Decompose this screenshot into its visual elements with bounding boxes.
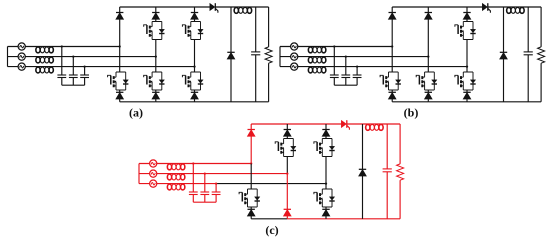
wire: leg 1 node-to-fet (b) xyxy=(391,47,393,73)
node: phase b junction (b) xyxy=(427,55,429,57)
diode D1t (b) xyxy=(389,13,396,20)
thyristor T (a) xyxy=(210,3,218,13)
wire: leg 2 diode-to-rail (a) xyxy=(155,99,157,102)
wire: freewheel branch (a) xyxy=(230,7,232,102)
diode D3b (a) xyxy=(191,92,198,99)
wire: leg 3 top stub (b) xyxy=(466,7,468,13)
diode D3b (c) xyxy=(322,209,329,216)
node: cap junction b (c) xyxy=(204,172,206,174)
wire: phase b line (b) xyxy=(280,56,428,58)
diode D2t (b) xyxy=(425,13,432,20)
wire: load branch (b) xyxy=(540,7,542,102)
diode D2b (c) xyxy=(284,209,291,216)
resistor Rload (a) xyxy=(265,47,272,63)
mosfet S3b (c) xyxy=(314,189,335,207)
resistor Rload (c) xyxy=(397,164,404,180)
wire: leg 2 diode-to-rail (b) xyxy=(427,99,429,102)
diode D2t (a) xyxy=(152,13,159,20)
node: cap junction a (a) xyxy=(61,45,63,47)
wire: leg 2 diode-to-fet (c) xyxy=(286,136,288,139)
wire: leg 1 diode-to-rail (c) xyxy=(250,216,252,219)
node: phase c junction (a) xyxy=(193,65,195,67)
wire: leg 1 top stub (c) xyxy=(250,124,252,130)
diode D3t (c) xyxy=(322,130,329,137)
mosfet S3b (a) xyxy=(182,72,203,90)
ac source Vc (c) xyxy=(150,180,157,187)
wire: leg 3 diode-to-rail (a) xyxy=(194,99,196,102)
inductor Lb (a) xyxy=(36,57,54,63)
wire: leg 2 diode-to-fet (a) xyxy=(155,19,157,22)
wire: filter cap star bar (c) xyxy=(193,201,216,203)
node: phase c junction (c) xyxy=(325,182,327,184)
wire: filter cap branch c (a) xyxy=(84,67,86,86)
mosfet S3b (b) xyxy=(455,72,476,90)
wire: negative dc rail right (b) xyxy=(428,101,541,103)
capacitor Cfb (a) xyxy=(69,75,78,78)
wire: output cap branch (b) xyxy=(527,7,529,102)
resistor Rload (b) xyxy=(538,47,545,63)
wire: leg 2 fet-to-node (c) xyxy=(286,157,288,174)
wire: leg 3 fet-to-diode (a) xyxy=(194,90,196,92)
wire: leg 3 node-to-fet (b) xyxy=(466,67,468,72)
wire: leg 1 fet-to-diode (a) xyxy=(119,90,121,92)
wire: leg 3 fet-to-node (b) xyxy=(466,40,468,67)
mosfet S1b (c) xyxy=(239,189,260,207)
svg-text:(b): (b) xyxy=(404,106,419,120)
wire: leg 1 diode-to-rail (a) xyxy=(119,99,121,102)
wire: leg 2 fet-to-node (a) xyxy=(155,40,157,57)
ac source Vc (b) xyxy=(291,63,298,70)
wire: filter cap branch b (c) xyxy=(204,174,206,203)
capacitor Cfc (b) xyxy=(353,75,362,78)
node: phase a junction (a) xyxy=(119,45,121,47)
wire: leg 2 top stub (c) xyxy=(286,124,288,130)
inductor Ldc (b) xyxy=(507,7,524,13)
wire: left bus of (a) xyxy=(7,47,9,67)
wire: negative dc rail right (c) xyxy=(287,218,400,220)
capacitor Cfa (c) xyxy=(189,192,198,195)
capacitor Cfa (a) xyxy=(57,75,66,78)
diode Df freewheel (a) xyxy=(227,52,234,59)
node: cap junction c (b) xyxy=(356,65,358,67)
diode D2b (b) xyxy=(425,92,432,99)
ac source Va (a) xyxy=(18,43,25,50)
inductor Lc (c) xyxy=(167,184,185,190)
ac source Vb (b) xyxy=(291,53,298,60)
ac source Vc (a) xyxy=(18,63,25,70)
diode D2t (c) xyxy=(284,130,291,137)
wire: leg 3 fet-to-node (a) xyxy=(194,40,196,67)
wire: leg 3 diode-to-fet (b) xyxy=(466,19,468,22)
wire: negative dc rail left (a) xyxy=(120,101,156,103)
circuit (c) highlighted rectifier xyxy=(139,120,404,219)
wire: leg 2 node-to-fet (b) xyxy=(427,57,429,72)
capacitor Co (b) xyxy=(524,52,533,55)
diode Df freewheel (b) xyxy=(500,52,507,59)
wire: leg 1 node-to-fet (c) xyxy=(250,164,252,190)
mosfet S2b (a) xyxy=(144,72,165,90)
inductor Ldc (c) xyxy=(366,124,384,130)
node: cap junction a (b) xyxy=(333,45,335,47)
wire: negative dc rail left (c) xyxy=(251,218,287,220)
diode D3t (b) xyxy=(463,13,470,20)
mosfet S2t (a) xyxy=(144,22,165,40)
wire: filter cap branch b (a) xyxy=(72,57,74,86)
wire: leg 3 top stub (c) xyxy=(325,124,327,130)
wire: leg 3 diode-to-fet (a) xyxy=(194,19,196,22)
ac source Vb (a) xyxy=(18,53,25,60)
wire: leg 3 node-to-fet (a) xyxy=(194,67,196,72)
node: cap junction b (a) xyxy=(72,55,74,57)
inductor Lb (c) xyxy=(167,174,185,180)
wire: leg 3 fet-to-diode (b) xyxy=(466,90,468,92)
wire: phase c line (b) xyxy=(280,66,467,68)
wire: leg 3 fet-to-node (c) xyxy=(325,157,327,184)
svg-text:(a): (a) xyxy=(129,106,143,120)
wire: load branch (c) xyxy=(399,124,401,219)
mosfet S2t (c) xyxy=(275,139,296,157)
capacitor Co (c) xyxy=(383,169,392,172)
wire: freewheel branch (c) xyxy=(362,124,364,219)
wire: leg 2 to rail (c) xyxy=(286,216,288,219)
wire: phase b line (a) xyxy=(8,56,156,58)
node: phase c junction (b) xyxy=(466,65,468,67)
diode D2b (a) xyxy=(152,92,159,99)
wire: positive dc rail (c) xyxy=(251,123,400,125)
wire: leg 1 top drop (c) xyxy=(250,136,252,164)
diode D3t (a) xyxy=(191,13,198,20)
inductor Lc (a) xyxy=(36,67,54,73)
wire: leg 2 node-to-fet (a) xyxy=(155,57,157,72)
wire: filter cap star bar (b) xyxy=(334,84,357,86)
wire: leg 1 top stub (b) xyxy=(391,7,393,13)
capacitor Cfb (b) xyxy=(341,75,350,78)
wire: filter cap branch a (b) xyxy=(333,47,335,86)
ac source Vb (c) xyxy=(150,170,157,177)
mosfet S3t (a) xyxy=(182,22,203,40)
capacitor Cfc (c) xyxy=(212,192,221,195)
wire: output cap branch (a) xyxy=(255,7,257,102)
thyristor T (c) xyxy=(341,120,349,130)
wire: filter cap branch c (b) xyxy=(356,67,358,86)
wire: negative dc rail left (b) xyxy=(392,101,428,103)
inductor La (a) xyxy=(36,47,54,53)
wire: phase a line (c) xyxy=(139,163,251,165)
node: phase a junction (c) xyxy=(250,162,252,164)
wire: leg 3 fet-to-diode (c) xyxy=(325,207,327,209)
wire: leg 3 top stub (a) xyxy=(194,7,196,13)
wire: leg 2 fet-to-diode (a) xyxy=(155,90,157,92)
wire: filter cap branch c (c) xyxy=(215,184,217,203)
node: cap junction c (c) xyxy=(215,182,217,184)
inductor Lb (b) xyxy=(308,57,326,63)
wire: leg 1 fet-to-diode (b) xyxy=(391,90,393,92)
wire: leg 3 diode-to-rail (c) xyxy=(325,216,327,219)
inductor La (b) xyxy=(308,47,326,53)
capacitor Cfc (a) xyxy=(80,75,89,78)
wire: leg 3 node-to-fet (c) xyxy=(325,184,327,189)
wire: leg 1 top drop (b) xyxy=(391,19,393,47)
wire: negative dc rail right (a) xyxy=(156,101,269,103)
diode D1b (c) xyxy=(248,209,255,216)
wire: output cap branch (c) xyxy=(386,124,388,219)
wire: filter cap star bar (a) xyxy=(62,84,85,86)
circuit (a) three-phase buck rectifier xyxy=(8,3,273,102)
wire: leg 1 diode-to-rail (b) xyxy=(391,99,393,102)
wire: leg 2 fet-to-diode (b) xyxy=(427,90,429,92)
wire: positive dc rail (b) xyxy=(392,6,541,8)
wire: filter cap branch a (a) xyxy=(61,47,63,86)
inductor Lc (b) xyxy=(308,67,326,73)
mosfet S3t (c) xyxy=(314,139,335,157)
wire: filter cap branch b (b) xyxy=(345,57,347,86)
diode Df freewheel (c) xyxy=(359,169,366,176)
wire: filter cap branch a (c) xyxy=(192,164,194,203)
wire: leg 2 top drop (b) xyxy=(427,19,429,57)
diode D1t (a) xyxy=(116,13,123,20)
diode D3b (b) xyxy=(463,92,470,99)
wire: freewheel branch (b) xyxy=(503,7,505,102)
circuit (b) buck rectifier variant xyxy=(280,3,545,102)
inductor Ldc (a) xyxy=(234,7,252,13)
mosfet S1b (b) xyxy=(380,72,401,90)
node: cap junction a (c) xyxy=(192,162,194,164)
wire: leg 3 diode-to-rail (b) xyxy=(466,99,468,102)
mosfet S3t (b) xyxy=(455,22,476,40)
wire: leg 1 top drop (a) xyxy=(119,19,121,47)
node: phase b junction (c) xyxy=(286,172,288,174)
diode D1b (b) xyxy=(389,92,396,99)
capacitor Cfa (b) xyxy=(330,75,339,78)
node: phase a junction (b) xyxy=(391,45,393,47)
wire: phase b line (c) xyxy=(139,173,287,175)
mosfet S1b (a) xyxy=(108,72,129,90)
wire: left bus of (b) xyxy=(279,47,281,67)
node: phase b junction (a) xyxy=(155,55,157,57)
inductor La (c) xyxy=(167,164,185,170)
wire: leg 3 diode-to-fet (c) xyxy=(325,136,327,139)
wire: leg 2 top stub (b) xyxy=(427,7,429,13)
capacitor Co (a) xyxy=(251,52,260,55)
svg-text:(c): (c) xyxy=(265,223,278,237)
ac source Va (b) xyxy=(291,43,298,50)
wire: leg 2 bottom drop (c) xyxy=(286,174,288,210)
wire: phase a line (a) xyxy=(8,46,120,48)
wire: left bus of (c) xyxy=(138,164,140,184)
wire: leg 2 top stub (a) xyxy=(155,7,157,13)
diode D1t (c) xyxy=(248,130,255,137)
wire: phase a line (b) xyxy=(280,46,392,48)
wire: positive dc rail (a) xyxy=(120,6,269,8)
wire: leg 1 fet-to-diode (c) xyxy=(250,207,252,209)
thyristor T (b) xyxy=(482,3,490,13)
wire: leg 1 top stub (a) xyxy=(119,7,121,13)
node: cap junction b (b) xyxy=(345,55,347,57)
mosfet S2b (b) xyxy=(416,72,437,90)
wire: phase c line (c) xyxy=(139,183,326,185)
wire: leg 1 node-to-fet (a) xyxy=(119,47,121,73)
diode D1b (a) xyxy=(116,92,123,99)
ac source Va (c) xyxy=(150,160,157,167)
wire: phase c line (a) xyxy=(8,66,195,68)
wire: load branch (a) xyxy=(268,7,270,102)
node: cap junction c (a) xyxy=(83,65,85,67)
capacitor Cfb (c) xyxy=(200,192,209,195)
